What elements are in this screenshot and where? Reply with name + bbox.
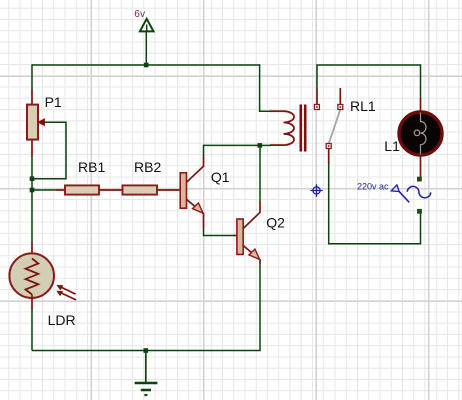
source terminal top bbox=[417, 177, 422, 182]
wire coil bottom to collector node bbox=[260, 144, 271, 146]
wire Q1 collector up bbox=[204, 145, 261, 156]
transistor Q2 bbox=[233, 202, 260, 264]
transistor Q1 bbox=[180, 156, 203, 228]
wire top rail bbox=[32, 64, 260, 66]
resistor RB1 bbox=[56, 185, 123, 194]
wire Q2 collector vertical bbox=[259, 145, 261, 202]
LDR bbox=[9, 242, 76, 310]
potentiometer P1 bbox=[27, 90, 44, 157]
wire contact to source bbox=[329, 164, 421, 244]
relay contact RL1 bbox=[314, 88, 342, 164]
junction 6v / top rail bbox=[144, 63, 149, 68]
svg-text:220v ac: 220v ac bbox=[357, 181, 389, 191]
wire LDR to bottom rail bbox=[31, 309, 33, 351]
wire top rail corner to coil bbox=[260, 64, 271, 111]
wire left vertical (top rail to P1) bbox=[31, 64, 33, 91]
svg-text:6v: 6v bbox=[134, 9, 146, 20]
junction collector node bbox=[258, 143, 263, 148]
junction ground node bbox=[144, 348, 149, 353]
ac source symbol bbox=[391, 185, 431, 202]
junction wiper node bbox=[30, 176, 35, 181]
wire Q1 emitter to Q2 base bbox=[204, 227, 234, 236]
svg-text:LDR: LDR bbox=[48, 312, 76, 328]
svg-text:L1: L1 bbox=[384, 138, 400, 154]
relay coil RL1 bbox=[270, 105, 305, 152]
wire right circuit top rail bbox=[317, 65, 421, 99]
junction base divider node bbox=[30, 188, 35, 193]
wire P1 to LDR bbox=[31, 156, 33, 243]
resistor RB2 bbox=[123, 185, 181, 194]
wire wiper to left rail bbox=[32, 122, 66, 179]
power symbol 6v bbox=[140, 19, 154, 65]
lamp L1 bbox=[399, 98, 442, 177]
svg-text:RB2: RB2 bbox=[134, 159, 161, 175]
wire node to RB1 bbox=[32, 189, 57, 191]
svg-text:RL1: RL1 bbox=[350, 98, 376, 114]
svg-text:P1: P1 bbox=[45, 94, 62, 110]
origin marker bbox=[310, 184, 322, 196]
wire bottom rail bbox=[32, 350, 261, 352]
svg-text:Q2: Q2 bbox=[266, 215, 285, 231]
wire Q2 emitter down bbox=[259, 263, 261, 351]
svg-text:RB1: RB1 bbox=[78, 159, 105, 175]
ground bbox=[135, 351, 158, 396]
svg-text:Q1: Q1 bbox=[211, 169, 230, 185]
source terminal bottom bbox=[417, 209, 422, 214]
